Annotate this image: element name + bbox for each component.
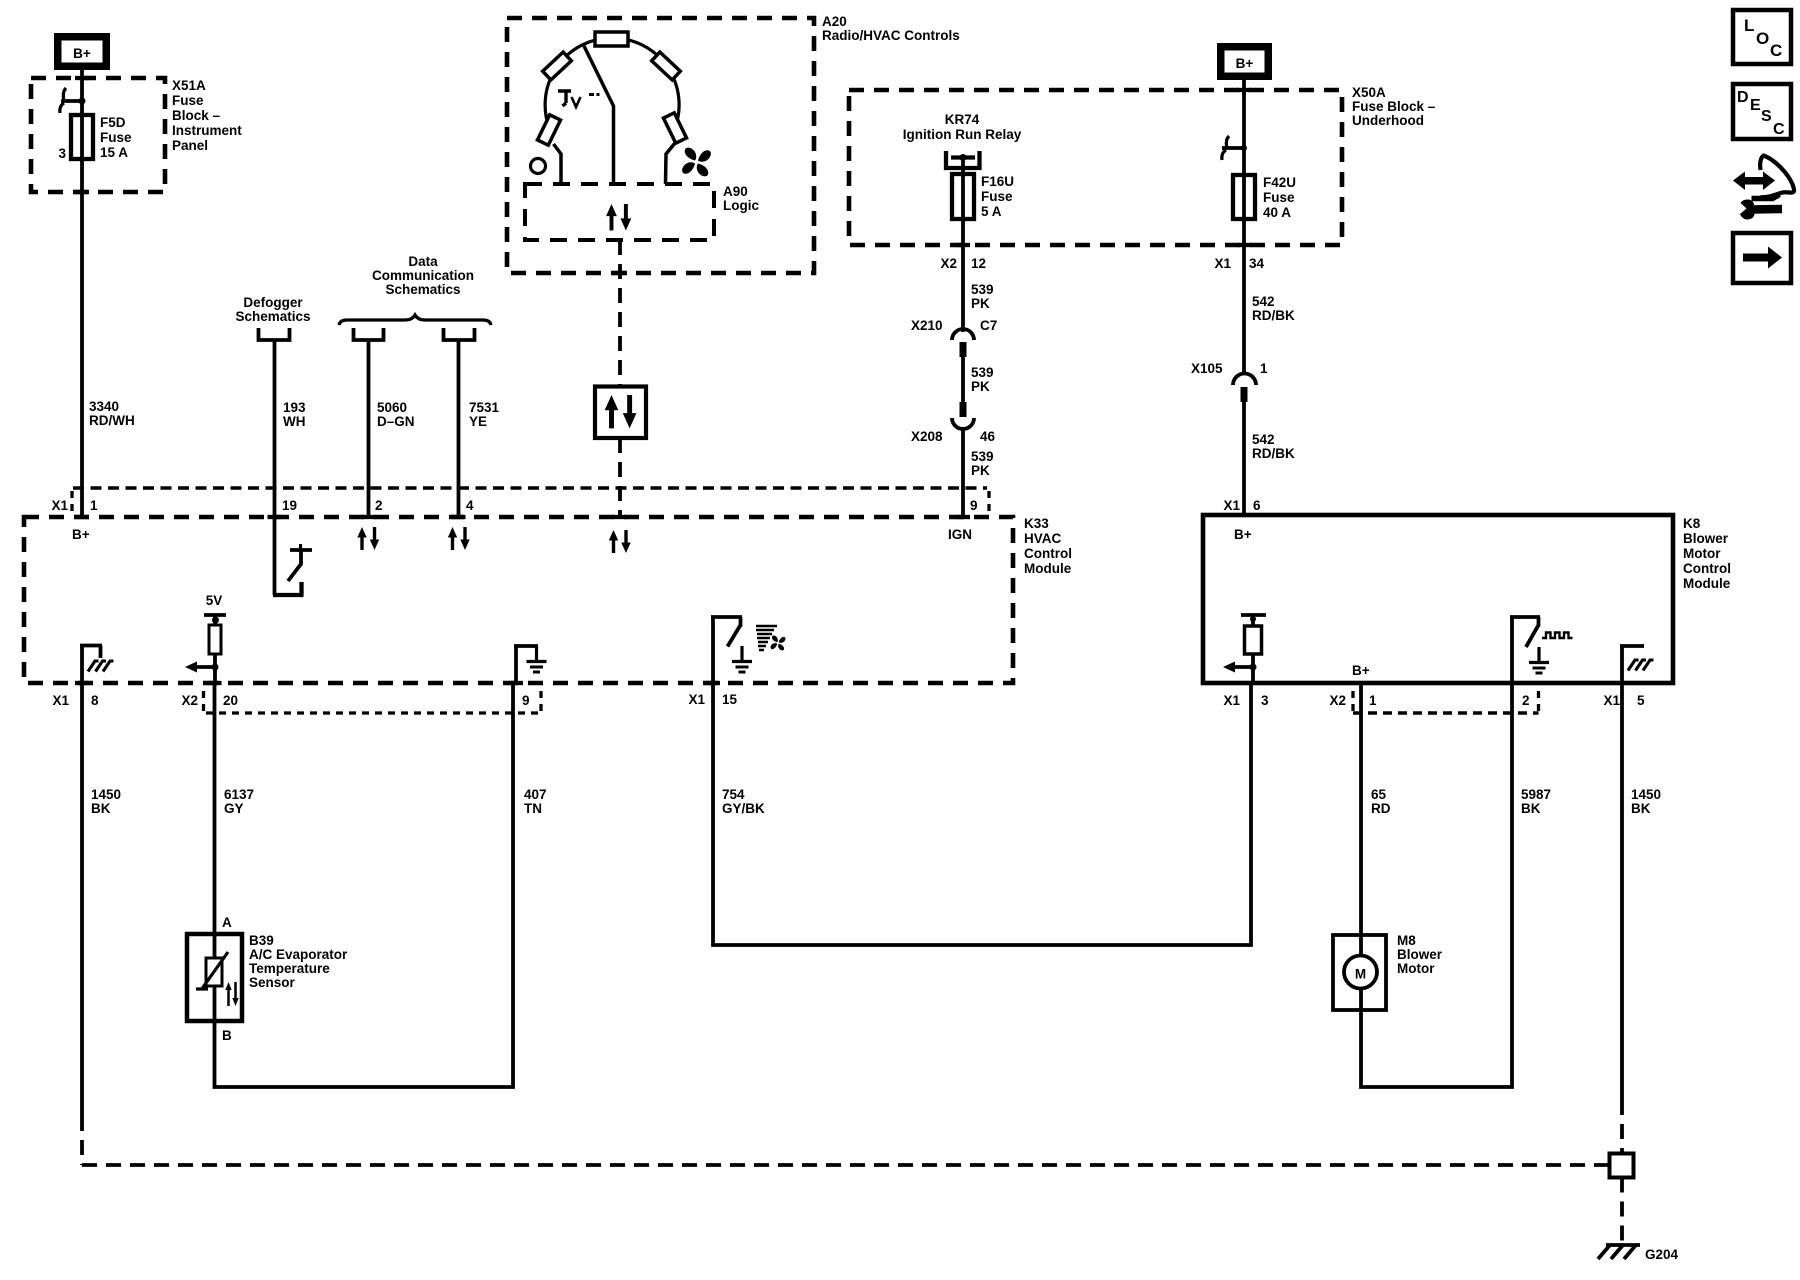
svg-text:PK: PK — [971, 379, 990, 394]
wire B+ down into fuse block X51A — [80, 70, 84, 116]
bus tap symbol above F42U — [1222, 136, 1247, 160]
serial data box (arrows) — [595, 387, 646, 439]
label 539 PK — [971, 365, 994, 394]
svg-text:40 A: 40 A — [1263, 205, 1291, 220]
svg-text:A: A — [222, 915, 232, 930]
power symbol B+ (underhood feed) — [1217, 43, 1272, 80]
svg-text:1: 1 — [1260, 361, 1268, 376]
svg-text:F5D: F5D — [100, 115, 126, 130]
fuse F16U 5 A — [952, 174, 974, 219]
label X105 / 1 — [1191, 361, 1268, 376]
svg-text:Fuse: Fuse — [100, 130, 132, 145]
up/down arrows in data box — [605, 395, 637, 428]
svg-text:X2: X2 — [181, 693, 198, 708]
wire 1450 BK (K33 pin 8 to ground run) — [80, 683, 84, 1116]
svg-text:X50A: X50A — [1352, 85, 1386, 100]
switch symbol below pin 19 (defogger control) — [273, 517, 312, 595]
svg-text:2: 2 — [375, 498, 383, 513]
connector X2 line (dashed) at K8 bottom — [1353, 711, 1539, 715]
tick: wire through X50A top edge — [1237, 88, 1251, 92]
svg-text:F42U: F42U — [1263, 175, 1296, 190]
svg-text:M: M — [1355, 967, 1366, 982]
svg-text:3: 3 — [1261, 693, 1269, 708]
fuse block X51A (dashed box) — [31, 78, 165, 192]
svg-text:15 A: 15 A — [100, 145, 128, 160]
dotted separator (X1 left) — [70, 491, 73, 515]
svg-text:KR74: KR74 — [945, 112, 980, 127]
svg-text:2: 2 — [1522, 693, 1530, 708]
label 407 TN — [524, 787, 547, 816]
svg-text:Blower: Blower — [1397, 947, 1443, 962]
power symbol B+ (instrument panel feed) — [54, 33, 110, 70]
svg-text:X1: X1 — [51, 498, 68, 513]
svg-text:WH: WH — [283, 414, 306, 429]
svg-text:Motor: Motor — [1683, 546, 1721, 561]
svg-text:539: 539 — [971, 365, 994, 380]
svg-text:Fuse: Fuse — [172, 93, 204, 108]
svg-text:3: 3 — [58, 146, 66, 161]
earth ground (K33 pin 9 bottom) — [514, 646, 547, 683]
earth ground under pin 2 switch — [1529, 647, 1549, 673]
blower motor M8 — [1333, 935, 1386, 1010]
label 5987 BK — [1521, 787, 1551, 816]
label 1450 BK — [1631, 787, 1661, 816]
ticks: wires through K33 top edge — [75, 515, 89, 519]
svg-text:7531: 7531 — [469, 400, 500, 415]
svg-text:20: 20 — [223, 693, 238, 708]
svg-text:Panel: Panel — [172, 138, 208, 153]
dotted separator (K8 pin 2 right) — [1537, 691, 1540, 713]
switch right leg wire — [666, 143, 676, 184]
svg-text:BK: BK — [1631, 801, 1651, 816]
pin labels K33 top — [51, 498, 977, 513]
svg-text:407: 407 — [524, 787, 547, 802]
svg-text:Block –: Block – — [172, 108, 221, 123]
svg-text:1: 1 — [90, 498, 98, 513]
label K8 Blower Motor Control Module — [1683, 516, 1731, 591]
svg-text:B+: B+ — [72, 527, 90, 542]
A/C evaporator temperature sensor B39 — [187, 934, 242, 1021]
svg-text:X1: X1 — [52, 693, 69, 708]
svg-text:5: 5 — [1637, 693, 1645, 708]
tick: wires through X50A bottom edge — [956, 243, 970, 247]
control line into K33 (dashed) — [618, 438, 622, 517]
label M8 Blower Motor — [1397, 933, 1443, 976]
label 6137 GY — [224, 787, 254, 816]
svg-text:B: B — [222, 1028, 232, 1043]
svg-text:5V: 5V — [206, 593, 223, 608]
svg-text:6137: 6137 — [224, 787, 254, 802]
icon LOC — [1733, 10, 1791, 64]
control line A20 to K33 (dashed) — [618, 240, 622, 386]
switch symbol above pin 2 (motor speed control) — [1510, 617, 1540, 683]
svg-text:X208: X208 — [911, 429, 943, 444]
svg-text:539: 539 — [971, 449, 994, 464]
svg-text:Module: Module — [1683, 576, 1731, 591]
dashed ground run (horizontal to splice) — [82, 1163, 1609, 1167]
chassis ground (K8 pin 5) — [1620, 646, 1654, 683]
svg-text:BK: BK — [91, 801, 111, 816]
svg-text:GY/BK: GY/BK — [722, 801, 765, 816]
module A90 Logic (dashed box) — [525, 184, 714, 240]
svg-text:X1: X1 — [1223, 693, 1240, 708]
switch contact (upper left) — [543, 52, 572, 80]
svg-text:Motor: Motor — [1397, 961, 1435, 976]
switch contact (lower right) — [663, 113, 686, 143]
svg-text:PK: PK — [971, 296, 990, 311]
svg-text:Fuse Block –: Fuse Block – — [1352, 99, 1436, 114]
pin X1 6 (K8 top) — [1223, 498, 1261, 513]
svg-text:X1: X1 — [1214, 256, 1231, 271]
label X210 / C7 — [911, 318, 997, 333]
svg-text:TN: TN — [524, 801, 542, 816]
wire 1450 BK (K8 pin 5 to ground splice) — [1620, 683, 1624, 1100]
wire 7531 YE (to K33 pin 4) — [457, 340, 461, 517]
svg-text:Ignition Run Relay: Ignition Run Relay — [903, 127, 1022, 142]
PWM signal glyph — [1542, 633, 1573, 639]
svg-text:IGN: IGN — [948, 527, 972, 542]
switch contact (lower left) — [537, 115, 560, 145]
svg-text:K33: K33 — [1024, 516, 1049, 531]
label 5060 D-GN — [377, 400, 415, 429]
svg-text:3340: 3340 — [89, 399, 119, 414]
svg-text:Schematics: Schematics — [385, 282, 460, 297]
svg-text:X105: X105 — [1191, 361, 1223, 376]
label F16U Fuse 5 A — [981, 174, 1014, 219]
earth ground under pin 15 switch — [732, 646, 752, 672]
svg-text:O: O — [1756, 29, 1769, 48]
label B39 A/C Evaporator Temperature Sensor — [249, 933, 348, 990]
wire 193 WH (defogger to K33 pin 19) — [273, 340, 277, 517]
wire 542 RD/BK (X105 to K8 pin 6) — [1242, 402, 1246, 515]
svg-text:L: L — [1744, 16, 1754, 35]
svg-text:542: 542 — [1252, 432, 1275, 447]
indicator circle (off position) — [531, 159, 546, 174]
svg-text:X2: X2 — [940, 256, 957, 271]
icon DESC — [1733, 84, 1791, 139]
svg-text:B39: B39 — [249, 933, 274, 948]
in-line connector X208 pin 46 — [952, 402, 974, 429]
svg-text:Sensor: Sensor — [249, 975, 296, 990]
svg-text:15: 15 — [722, 692, 738, 707]
svg-text:RD: RD — [1371, 801, 1391, 816]
dashed drop to splice — [1620, 1100, 1624, 1153]
temperature sensor resistor (K8 pin 3) — [1241, 615, 1266, 683]
in-line connector X105 pin 1 — [1233, 374, 1256, 403]
svg-text:9: 9 — [970, 498, 978, 513]
svg-text:D: D — [1737, 89, 1749, 106]
ticks: wires through K33 bottom edge — [75, 681, 89, 685]
svg-text:1: 1 — [1369, 693, 1377, 708]
off-page connector bracket (defogger) — [259, 328, 290, 340]
svg-text:Communication: Communication — [372, 268, 474, 283]
svg-text:Module: Module — [1024, 561, 1072, 576]
label 754 GY/BK — [722, 787, 765, 816]
tick: control line through A20 bottom edge — [613, 271, 627, 275]
up/down arrows (K33 serial data) — [609, 530, 631, 553]
brace (data communication group) — [339, 315, 491, 325]
svg-text:Blower: Blower — [1683, 531, 1729, 546]
svg-text:C: C — [1773, 121, 1785, 138]
module A20 Radio/HVAC Controls (dashed box) — [507, 18, 814, 273]
svg-text:Instrument: Instrument — [172, 123, 242, 138]
module K8 Blower Motor Control Module (solid box) — [1203, 515, 1673, 683]
svg-text:5 A: 5 A — [981, 204, 1002, 219]
svg-text:GY: GY — [224, 801, 244, 816]
switch left leg wire — [554, 144, 562, 184]
label 542 RD/BK — [1252, 432, 1295, 461]
svg-text:6: 6 — [1253, 498, 1261, 513]
fan glyph (A20) — [682, 148, 711, 177]
svg-text:754: 754 — [722, 787, 745, 802]
defrost glyph — [558, 90, 600, 108]
svg-text:542: 542 — [1252, 294, 1275, 309]
label 7531 YE — [469, 400, 500, 429]
svg-text:B+: B+ — [1234, 527, 1252, 542]
svg-text:F16U: F16U — [981, 174, 1014, 189]
label KR74 Ignition Run Relay — [903, 112, 1022, 142]
fuse F42U 40 A — [1233, 175, 1255, 219]
svg-text:E: E — [1750, 97, 1761, 114]
connector X2 line (dotted) at K33 bottom — [206, 711, 541, 714]
up/down arrows in A90 — [606, 204, 631, 230]
svg-text:K8: K8 — [1683, 516, 1701, 531]
svg-text:C: C — [1770, 41, 1782, 60]
icon forward arrow — [1733, 233, 1791, 283]
svg-text:S: S — [1761, 108, 1772, 125]
svg-text:A20: A20 — [822, 14, 847, 29]
svg-text:65: 65 — [1371, 787, 1387, 802]
switch detent rectangle (top) — [595, 32, 628, 46]
wire 539 PK (X208 to K33 pin 9) — [961, 428, 965, 517]
svg-text:Temperature: Temperature — [249, 961, 330, 976]
ground G204 — [1598, 1245, 1640, 1259]
label Data Communication Schematics — [372, 254, 474, 297]
svg-text:X1: X1 — [688, 692, 705, 707]
off-page connector bracket (7531) — [444, 328, 475, 340]
svg-text:Defogger: Defogger — [243, 295, 303, 310]
up/down arrows (K33 pin 4) — [448, 527, 470, 550]
rotary blower switch arc — [545, 38, 679, 130]
svg-text:1450: 1450 — [91, 787, 121, 802]
svg-text:B+: B+ — [1352, 663, 1370, 678]
module K33 HVAC Control Module (dashed box) — [24, 517, 1013, 683]
signal arrow (K8 pin 3) — [1223, 662, 1257, 673]
wire 5987 BK (motor return to K8 pin 2) — [1361, 683, 1512, 1087]
svg-text:D–GN: D–GN — [377, 414, 415, 429]
svg-text:Control: Control — [1024, 546, 1072, 561]
svg-text:G204: G204 — [1645, 1247, 1679, 1262]
fuse F5D 15 A — [71, 115, 93, 159]
svg-text:HVAC: HVAC — [1024, 531, 1062, 546]
wire 407 TN (B39 pin B to K33 pin 9) — [215, 683, 514, 1087]
svg-text:RD/BK: RD/BK — [1252, 308, 1295, 323]
svg-text:5987: 5987 — [1521, 787, 1551, 802]
switch symbol above pin 15 (blower control output) — [711, 617, 742, 683]
wire 5060 D-GN (to K33 pin 2) — [367, 340, 371, 517]
wire B+ into X50A — [1242, 80, 1246, 95]
in-line connector X210 pin C7 — [952, 329, 974, 357]
svg-text:5060: 5060 — [377, 400, 407, 415]
5V reference with pull-up resistor (K33 pin 20) — [204, 593, 226, 683]
label 542 RD/BK — [1252, 294, 1295, 323]
wire 542 RD/BK (fuse F42U to X105) — [1242, 245, 1246, 374]
svg-text:539: 539 — [971, 282, 994, 297]
svg-text:RD/BK: RD/BK — [1252, 446, 1295, 461]
svg-text:RD/WH: RD/WH — [89, 413, 135, 428]
wire 6137 GY (K33 pin 20 to B39 pin A) — [213, 683, 217, 934]
pin X1 34 (X50A) — [1214, 256, 1264, 271]
wire 754 GY/BK (K33 pin 15 to K8 pin 3) — [713, 683, 1251, 945]
chassis ground (K33 pin 8) — [80, 644, 114, 683]
svg-text:X2: X2 — [1329, 693, 1346, 708]
dotted separator (pin 20 left) — [202, 691, 205, 713]
bus tap symbol in X51A — [60, 88, 86, 113]
label K33 HVAC Control Module — [1024, 516, 1072, 576]
label X208 / 46 — [911, 429, 996, 444]
svg-text:Logic: Logic — [723, 198, 759, 213]
svg-text:4: 4 — [466, 498, 474, 513]
label X50A Fuse Block - Underhood — [1352, 85, 1436, 128]
label Defogger Schematics — [235, 295, 310, 324]
svg-text:12: 12 — [971, 256, 986, 271]
svg-text:A90: A90 — [723, 184, 748, 199]
dotted separator (pin 9 right) — [987, 491, 990, 515]
off-page connector bracket (5060) — [354, 328, 384, 340]
svg-text:A/C Evaporator: A/C Evaporator — [249, 947, 348, 962]
label F42U Fuse 40 A — [1263, 175, 1296, 220]
label A90 Logic — [723, 184, 759, 213]
svg-text:PK: PK — [971, 463, 990, 478]
wire 539 PK (fuse F16U to X210) — [961, 245, 965, 332]
connector X1 line (dotted) at K33 top — [73, 486, 987, 490]
svg-text:BK: BK — [1521, 801, 1541, 816]
switch contact (upper right) — [652, 52, 681, 80]
pin X2 12 (X50A) — [940, 256, 986, 271]
svg-text:C7: C7 — [980, 318, 997, 333]
pin labels K33 bottom — [52, 692, 737, 708]
tick: wire through X51A top edge — [75, 76, 89, 80]
svg-text:Fuse: Fuse — [1263, 190, 1295, 205]
switch wiper — [584, 46, 614, 183]
label 65 RD — [1371, 787, 1391, 816]
svg-text:Radio/HVAC Controls: Radio/HVAC Controls — [822, 28, 960, 43]
label 539 PK — [971, 282, 994, 311]
dotted separator (K8 pin 1 left) — [1351, 691, 1354, 713]
svg-text:B+: B+ — [73, 46, 91, 61]
svg-text:M8: M8 — [1397, 933, 1416, 948]
dashed ground run (left drop) — [80, 1116, 84, 1165]
label A20 Radio/HVAC Controls — [822, 14, 960, 43]
svg-text:Schematics: Schematics — [235, 309, 310, 324]
svg-text:Fuse: Fuse — [981, 189, 1013, 204]
wire 65 RD (K8 pin 1 to blower motor) — [1359, 683, 1363, 935]
svg-text:34: 34 — [1249, 256, 1265, 271]
svg-text:B+: B+ — [1236, 56, 1254, 71]
signal arrow (K33 pin 20) — [185, 662, 219, 673]
wire 3340 RD/WH (F5D to K33 pin 1) — [80, 159, 84, 517]
svg-text:X210: X210 — [911, 318, 943, 333]
svg-text:9: 9 — [522, 693, 530, 708]
svg-text:YE: YE — [469, 414, 487, 429]
wire 539 PK (X210 to X208) — [961, 357, 965, 402]
svg-text:46: 46 — [980, 429, 996, 444]
fuse block X50A (dashed box) — [849, 90, 1342, 245]
label 193 WH — [283, 400, 306, 429]
label F5D Fuse 15 A — [100, 115, 132, 160]
icon service information (arrow, part outline, wrench) — [1733, 156, 1794, 220]
svg-text:Control: Control — [1683, 561, 1731, 576]
label X51A Fuse Block - Instrument Panel — [172, 78, 242, 153]
svg-text:1450: 1450 — [1631, 787, 1661, 802]
pin labels K8 bottom — [1223, 693, 1645, 708]
svg-text:193: 193 — [283, 400, 306, 415]
svg-text:X51A: X51A — [172, 78, 206, 93]
svg-text:19: 19 — [282, 498, 297, 513]
motor winding + fan glyph (K33) — [756, 626, 785, 650]
relay KR74 contact symbol — [946, 151, 980, 168]
svg-text:8: 8 — [91, 693, 99, 708]
svg-text:Data: Data — [408, 254, 438, 269]
dotted separator (pin 9 right) — [539, 691, 542, 713]
ground splice box — [1610, 1154, 1634, 1178]
up/down arrows (K33 pin 2) — [357, 527, 379, 550]
svg-text:Underhood: Underhood — [1352, 113, 1424, 128]
label 539 PK — [971, 449, 994, 478]
label 1450 BK — [91, 787, 121, 816]
label 3340 RD/WH — [89, 399, 135, 428]
tick: wire through X51A bottom edge — [75, 190, 89, 194]
svg-text:X1: X1 — [1603, 693, 1620, 708]
dashed drop splice to G204 — [1620, 1178, 1624, 1244]
svg-text:X1: X1 — [1223, 498, 1240, 513]
